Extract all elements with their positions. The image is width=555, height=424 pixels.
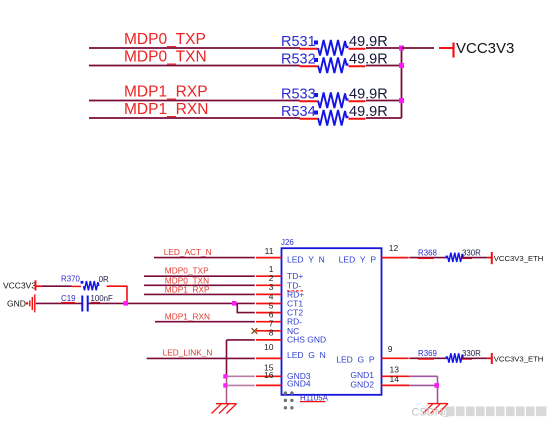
svg-text:330R: 330R — [462, 248, 481, 257]
svg-text:LED_LINK_N: LED_LINK_N — [163, 348, 213, 358]
wire MDP1_RXP bottom — [144, 293, 255, 295]
resistor R531 — [281, 34, 388, 56]
wire vertical bus joining resistors — [401, 48, 403, 118]
power port VCC3V3_ETH lower — [487, 353, 543, 364]
wire R368 to VCC3V3_ETH — [462, 257, 487, 259]
svg-text:GND4: GND4 — [287, 379, 311, 389]
wire to VCC3V3 — [402, 47, 435, 49]
pin stub 3 — [256, 293, 282, 295]
svg-text:R368: R368 — [418, 248, 437, 257]
svg-text:49.9R: 49.9R — [349, 34, 388, 50]
svg-text:C19: C19 — [61, 294, 76, 303]
resistor R368 — [418, 248, 481, 262]
pin stub 15 — [256, 375, 282, 377]
svg-text:R369: R369 — [418, 349, 437, 358]
junction node row1 — [399, 46, 404, 51]
pin stub 16 — [256, 384, 282, 386]
pin stub 1 — [256, 275, 282, 277]
resistor R534 — [281, 104, 388, 126]
svg-text:MDP0_TXP: MDP0_TXP — [124, 31, 206, 48]
svg-text:J26: J26 — [281, 238, 294, 247]
svg-text:R533: R533 — [281, 87, 316, 103]
wire MDP0_TXN left segment — [89, 65, 300, 67]
pin stub 6 — [256, 321, 282, 323]
svg-text:MDP1_RXP: MDP1_RXP — [124, 84, 208, 101]
svg-text:LED G N: LED G N — [287, 350, 326, 360]
pin stub 11 — [256, 257, 282, 259]
resistor R533 — [281, 87, 388, 109]
wire MDP1_RXN bottom — [155, 321, 255, 323]
junction node pins13/14 — [434, 383, 439, 388]
wire MDP0_TXP right segment — [366, 47, 402, 49]
wire LED_LINK_N — [147, 357, 255, 359]
mounting dots pattern — [284, 391, 294, 409]
svg-text:MDP0_TXN: MDP0_TXN — [124, 49, 207, 66]
junction node at R370/C19 — [123, 301, 128, 306]
wire LED_ACT_N — [154, 257, 255, 259]
wire MDP1_RXN left segment — [89, 117, 300, 119]
pin stub 14 — [382, 384, 410, 386]
wire R369 to VCC3V3_ETH — [462, 357, 487, 359]
svg-text:VCC3V3: VCC3V3 — [3, 280, 36, 290]
pin stub 13 — [382, 375, 410, 377]
power port VCC3V3 bottom — [3, 280, 42, 290]
ground symbol left — [212, 404, 237, 414]
svg-text:GND2: GND2 — [350, 380, 374, 390]
pin stub 8 (CHS GND) — [256, 339, 282, 341]
svg-text:100nF: 100nF — [91, 294, 114, 303]
wire CT branch to pin5 — [237, 303, 255, 312]
svg-text:LED Y P: LED Y P — [339, 255, 377, 265]
svg-text:H1105A: H1105A — [300, 393, 329, 402]
junction node row2 — [399, 63, 404, 68]
svg-text:9: 9 — [388, 344, 393, 354]
wire to pin15 — [227, 375, 255, 377]
svg-text:49.9R: 49.9R — [349, 52, 388, 68]
svg-text:LED G P: LED G P — [336, 355, 375, 365]
svg-text:LED_ACT_N: LED_ACT_N — [164, 247, 212, 257]
pin stub 4 — [256, 303, 282, 305]
resistor R532 — [281, 52, 388, 74]
svg-text:GND: GND — [7, 299, 26, 309]
wire MDP1_RXP right segment — [366, 100, 402, 102]
wire MDP0_TXP left segment — [89, 47, 300, 49]
wire CHS GND to ground — [227, 340, 255, 404]
svg-text:MDP1_RXN: MDP1_RXN — [124, 101, 208, 118]
svg-text:0R: 0R — [99, 275, 109, 284]
svg-text:LED Y N: LED Y N — [287, 255, 325, 265]
TD- red dashed marker — [287, 290, 303, 292]
pin stub 5 — [256, 312, 282, 314]
svg-text:MDP1_RXN: MDP1_RXN — [165, 312, 210, 322]
pin stub 10 — [256, 357, 282, 359]
pin stub 12 — [382, 257, 409, 259]
ground symbol right — [423, 404, 448, 414]
svg-text:R534: R534 — [281, 104, 316, 120]
svg-text:330R: 330R — [462, 349, 481, 358]
pin stub 7 — [256, 330, 282, 332]
wire VCC to R370 — [42, 285, 72, 287]
part number H1105A — [300, 393, 329, 402]
wire C19 to pin4 row — [89, 302, 255, 304]
svg-text:VCC3V3_ETH: VCC3V3_ETH — [494, 355, 544, 364]
wire MDP0_TXN right segment — [366, 65, 402, 67]
svg-text:GND1: GND1 — [350, 370, 374, 380]
wire pin12 to R368 — [409, 257, 447, 259]
wire to pin16 — [227, 384, 255, 386]
capacitor C19 — [61, 294, 113, 312]
wire GND to C19 — [36, 302, 82, 304]
svg-text:CSDN: CSDN — [412, 407, 443, 419]
watermark — [412, 407, 547, 419]
junction node pin15 tap — [223, 374, 227, 378]
svg-text:13: 13 — [390, 365, 400, 375]
junction node row3 — [399, 98, 404, 103]
wire MDP1_RXN right segment — [366, 117, 402, 119]
svg-text:11: 11 — [265, 246, 274, 256]
connector J26 body — [282, 248, 382, 395]
svg-text:10: 10 — [264, 342, 274, 352]
resistor R370 — [61, 275, 109, 291]
svg-text:49.9R: 49.9R — [349, 104, 388, 120]
svg-text:16: 16 — [264, 370, 274, 380]
svg-text:VCC3V3_ETH: VCC3V3_ETH — [494, 254, 544, 263]
svg-text:49.9R: 49.9R — [349, 87, 388, 103]
no connect X on pin 7 — [252, 328, 258, 334]
power port GND — [7, 294, 35, 312]
svg-text:VCC3V3: VCC3V3 — [456, 40, 514, 57]
junction node pin16 tap — [223, 383, 227, 387]
svg-text:R370: R370 — [61, 275, 80, 284]
junction node at CT1 branch — [232, 301, 237, 306]
svg-text:MDP1_RXP: MDP1_RXP — [165, 285, 210, 295]
wire pin9 to R369 — [409, 357, 447, 359]
wire MDP0_TXP bottom — [144, 275, 255, 277]
power port VCC3V3 top — [439, 40, 514, 58]
wire pin14 to ground — [409, 384, 438, 386]
wire MDP0_TXN bottom — [144, 284, 255, 286]
svg-text:MDP0_TXP: MDP0_TXP — [165, 266, 209, 276]
wire R370 to junction (red) — [107, 286, 128, 303]
svg-text:8: 8 — [269, 328, 274, 338]
pin stub 9 — [382, 357, 409, 359]
svg-text:R531: R531 — [281, 34, 316, 50]
svg-text:CHS GND: CHS GND — [287, 334, 326, 344]
wire pin13 to ground — [409, 376, 438, 403]
wire MDP1_RXP left segment — [89, 100, 300, 102]
power port VCC3V3_ETH upper — [487, 252, 543, 264]
resistor R369 — [418, 349, 481, 363]
svg-text:R532: R532 — [281, 52, 316, 68]
pin stub 2 — [256, 284, 282, 286]
svg-text:12: 12 — [389, 243, 399, 253]
svg-text:14: 14 — [390, 374, 400, 384]
